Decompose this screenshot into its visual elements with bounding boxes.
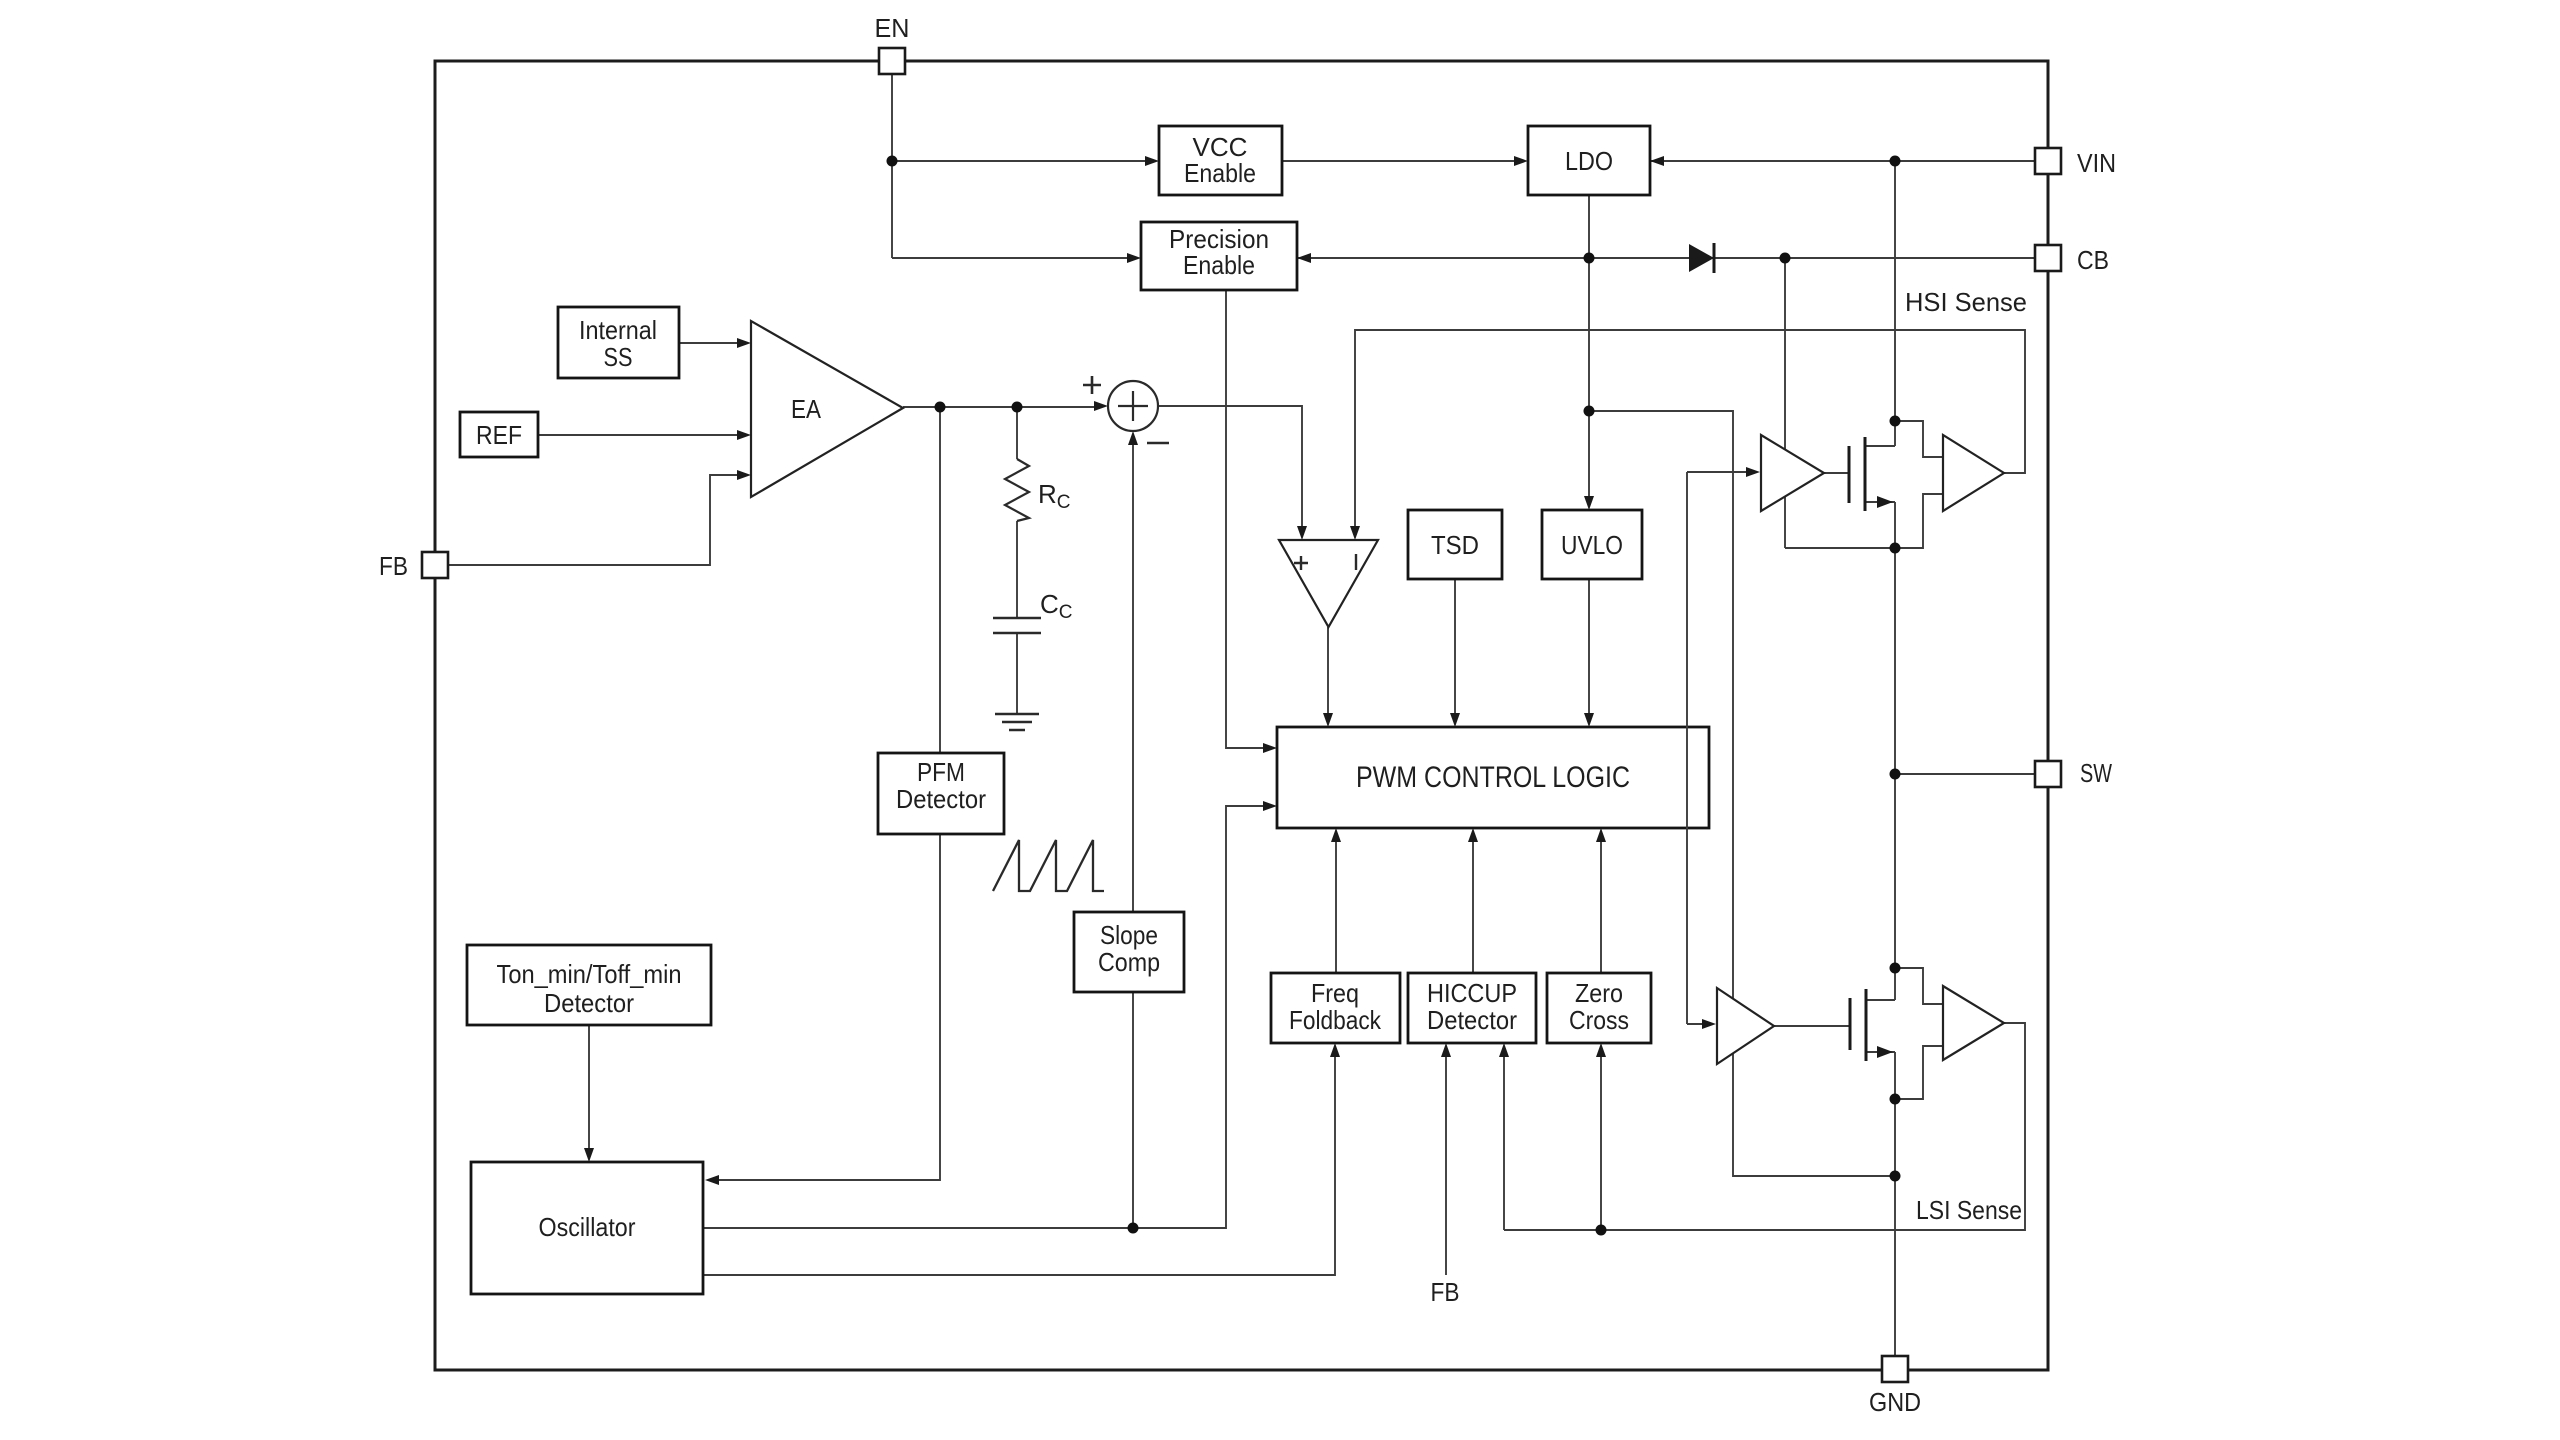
svg-text:VIN: VIN [2077, 148, 2116, 178]
svg-text:LDO: LDO [1565, 146, 1613, 176]
svg-text:SS: SS [604, 342, 633, 372]
svg-text:TSD: TSD [1431, 530, 1479, 560]
svg-text:Oscillator: Oscillator [539, 1212, 636, 1242]
svg-text:Enable: Enable [1184, 158, 1256, 188]
svg-text:REF: REF [476, 420, 522, 450]
svg-text:UVLO: UVLO [1561, 530, 1623, 560]
svg-text:FB: FB [379, 551, 408, 581]
svg-text:Enable: Enable [1183, 250, 1255, 280]
svg-text:Internal: Internal [579, 315, 657, 345]
svg-text:Detector: Detector [896, 784, 986, 814]
svg-text:PFM: PFM [917, 757, 965, 787]
svg-text:GND: GND [1869, 1387, 1921, 1417]
svg-text:Ton_min/Toff_min: Ton_min/Toff_min [497, 959, 682, 989]
svg-text:SW: SW [2080, 758, 2112, 788]
svg-text:EN: EN [875, 13, 910, 43]
svg-text:Foldback: Foldback [1289, 1005, 1382, 1035]
svg-text:HICCUP: HICCUP [1427, 978, 1517, 1008]
svg-text:PWM CONTROL LOGIC: PWM CONTROL LOGIC [1356, 761, 1630, 794]
svg-text:CB: CB [2077, 245, 2109, 275]
svg-text:LSI Sense: LSI Sense [1916, 1195, 2022, 1225]
svg-text:Comp: Comp [1098, 947, 1160, 977]
svg-text:Zero: Zero [1575, 978, 1623, 1008]
svg-text:Detector: Detector [1427, 1005, 1517, 1035]
svg-text:EA: EA [791, 394, 822, 424]
svg-text:HSI Sense: HSI Sense [1905, 287, 2027, 317]
svg-text:FB: FB [1431, 1277, 1460, 1307]
svg-text:Cross: Cross [1569, 1005, 1629, 1035]
svg-text:Detector: Detector [544, 988, 634, 1018]
svg-text:Slope: Slope [1100, 920, 1158, 950]
svg-text:Freq: Freq [1311, 978, 1359, 1008]
